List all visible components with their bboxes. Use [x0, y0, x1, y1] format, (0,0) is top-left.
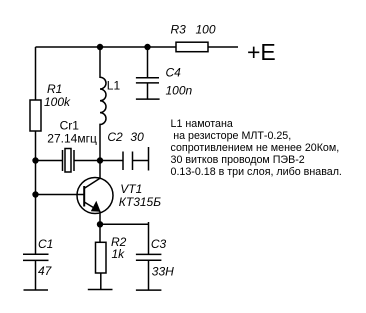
svg-text:VT1: VT1: [120, 182, 142, 196]
svg-text:0.13-0.18 в три слоя, либо вна: 0.13-0.18 в три слоя, либо внавал.: [171, 166, 342, 178]
capacitor C2: [100, 152, 149, 171]
wire down to C3: [148, 222, 150, 254]
svg-text:C4: C4: [166, 66, 182, 80]
svg-text:C1: C1: [38, 237, 53, 251]
svg-text:C2: C2: [107, 130, 123, 144]
ground (C1): [24, 289, 49, 291]
ground (C3): [136, 289, 162, 291]
node junction base: [32, 191, 38, 197]
wire emitter node horizontal: [100, 223, 149, 225]
resistor R2: [96, 224, 107, 289]
node junction emitter: [97, 221, 103, 227]
svg-text:C3: C3: [151, 237, 167, 251]
resistor R1: [30, 100, 41, 131]
svg-text:КТ315Б: КТ315Б: [119, 195, 161, 209]
svg-text:L1 намотана: L1 намотана: [171, 118, 233, 130]
ground (R2): [88, 289, 113, 291]
wire top rail right segment: [208, 46, 238, 48]
node junction crystal right / collector: [97, 157, 103, 163]
svg-text:L1: L1: [107, 79, 121, 93]
svg-text:на резисторе МЛТ-0.25,: на резисторе МЛТ-0.25,: [173, 130, 291, 142]
node junction top C4: [144, 44, 150, 50]
wire base: [36, 194, 85, 196]
svg-text:30 витков проводом ПЭВ-2: 30 витков проводом ПЭВ-2: [171, 154, 305, 166]
svg-text:сопротивлением не менее 20Ком,: сопротивлением не менее 20Ком,: [171, 142, 340, 154]
svg-text:Cr1: Cr1: [60, 118, 80, 132]
crystal Cr1: [36, 149, 101, 173]
note text about L1: [171, 118, 342, 178]
svg-text:100: 100: [196, 23, 216, 37]
capacitor C4: [136, 47, 159, 99]
inductor L1: [100, 47, 106, 178]
svg-text:47: 47: [38, 264, 53, 278]
svg-text:33H: 33H: [152, 265, 174, 279]
svg-text:100k: 100k: [44, 95, 71, 109]
node junction top L1: [97, 44, 103, 50]
svg-text:27.14мгц: 27.14мгц: [47, 132, 97, 146]
ground (C4): [136, 98, 160, 100]
transistor VT1: [77, 178, 113, 225]
wire C2 to emitter node (upper stub): [148, 147, 150, 171]
svg-text:+E: +E: [247, 39, 276, 65]
svg-text:100n: 100n: [166, 84, 193, 98]
wire left rail: [35, 47, 37, 254]
svg-text:1k: 1k: [112, 247, 126, 261]
wire top rail left segment: [36, 46, 177, 48]
capacitor C3: [136, 254, 162, 290]
node junction crystal left: [32, 157, 38, 163]
svg-text:30: 30: [130, 130, 144, 144]
resistor R3: [176, 42, 208, 52]
svg-text:R3: R3: [171, 23, 187, 37]
capacitor C1: [23, 254, 49, 290]
